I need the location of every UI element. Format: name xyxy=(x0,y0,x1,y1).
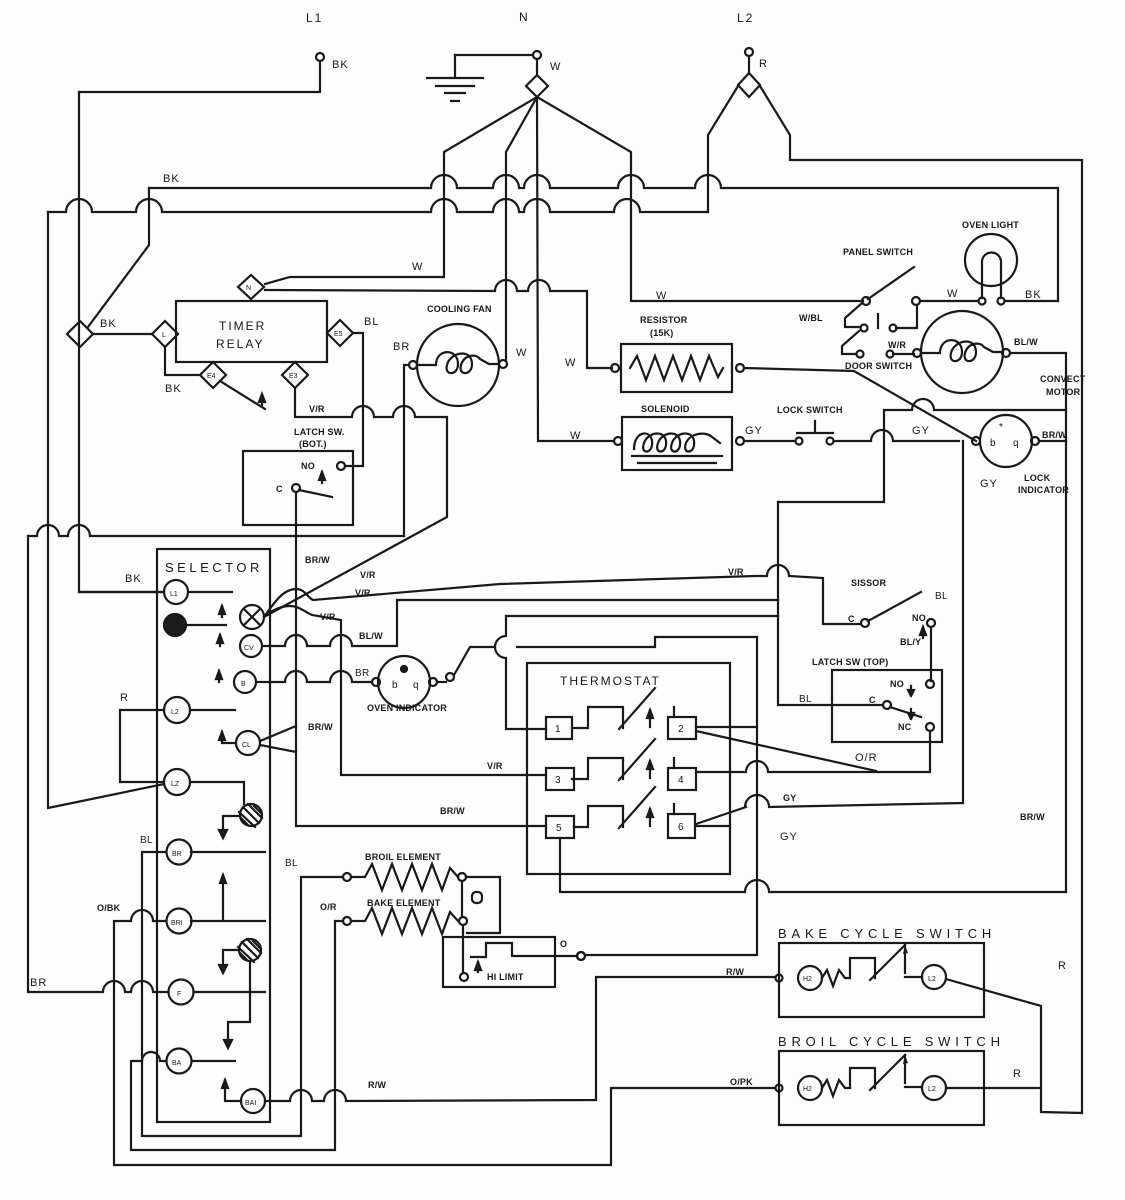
svg-text:L: L xyxy=(162,332,166,339)
svg-text:R: R xyxy=(759,58,768,70)
svg-text:H2: H2 xyxy=(803,976,812,983)
svg-text:W/BL: W/BL xyxy=(799,313,823,323)
svg-text:NC: NC xyxy=(898,722,912,732)
svg-text:BL/Y: BL/Y xyxy=(900,637,921,647)
svg-text:O/BK: O/BK xyxy=(97,903,121,913)
svg-text:BROIL CYCLE SWITCH: BROIL CYCLE SWITCH xyxy=(778,1034,1005,1049)
svg-text:BL: BL xyxy=(799,694,812,705)
svg-text:NO: NO xyxy=(301,461,315,471)
svg-text:2: 2 xyxy=(678,724,684,735)
svg-text:E3: E3 xyxy=(289,373,298,380)
svg-text:GY: GY xyxy=(780,831,798,843)
svg-text:BA: BA xyxy=(172,1060,182,1067)
svg-text:3: 3 xyxy=(555,775,561,786)
svg-text:SOLENOID: SOLENOID xyxy=(641,404,690,414)
svg-text:W: W xyxy=(550,61,561,73)
svg-text:O/PK: O/PK xyxy=(730,1077,753,1087)
svg-text:BAKE CYCLE SWITCH: BAKE CYCLE SWITCH xyxy=(778,926,996,941)
svg-text:R: R xyxy=(1058,960,1067,972)
svg-text:BL: BL xyxy=(364,316,379,328)
svg-text:BL: BL xyxy=(140,835,153,846)
svg-text:R/W: R/W xyxy=(726,967,744,977)
svg-text:*: * xyxy=(999,422,1003,433)
svg-text:L1: L1 xyxy=(170,591,178,598)
svg-text:V/R: V/R xyxy=(487,761,503,771)
svg-text:B: B xyxy=(241,681,246,688)
svg-text:BR: BR xyxy=(30,977,47,989)
svg-text:SISSOR: SISSOR xyxy=(851,578,887,588)
svg-text:6: 6 xyxy=(678,822,684,833)
svg-text:W: W xyxy=(412,261,423,273)
svg-text:W: W xyxy=(565,357,576,369)
svg-text:GY: GY xyxy=(912,425,930,437)
svg-text:BR: BR xyxy=(172,851,182,858)
svg-text:BR: BR xyxy=(393,341,410,353)
svg-text:W: W xyxy=(947,288,958,300)
svg-text:BRI: BRI xyxy=(171,920,183,927)
svg-text:BR/W: BR/W xyxy=(305,555,330,565)
svg-text:R: R xyxy=(120,692,129,704)
svg-text:GY: GY xyxy=(745,425,763,437)
svg-text:CL: CL xyxy=(242,742,251,749)
svg-text:V/R: V/R xyxy=(309,404,325,414)
svg-text:CV: CV xyxy=(244,645,254,652)
svg-text:BR/W: BR/W xyxy=(308,722,333,732)
svg-text:L1: L1 xyxy=(306,11,323,25)
svg-text:1: 1 xyxy=(555,724,561,735)
svg-text:RESISTOR: RESISTOR xyxy=(640,315,688,325)
svg-text:O: O xyxy=(560,939,567,949)
svg-text:(15K): (15K) xyxy=(650,328,674,338)
svg-text:W/R: W/R xyxy=(888,340,906,350)
svg-text:LATCH SW.: LATCH SW. xyxy=(294,427,345,437)
svg-text:INDICATOR: INDICATOR xyxy=(1018,485,1069,495)
svg-text:BL/W: BL/W xyxy=(359,631,383,641)
svg-text:R/W: R/W xyxy=(368,1080,386,1090)
svg-text:LOCK: LOCK xyxy=(1024,473,1051,483)
svg-text:W: W xyxy=(570,430,581,442)
svg-text:N: N xyxy=(246,285,251,292)
svg-text:BROIL ELEMENT: BROIL ELEMENT xyxy=(365,852,441,862)
svg-text:BR/W: BR/W xyxy=(440,806,465,816)
svg-text:L2: L2 xyxy=(737,11,754,25)
svg-text:GY: GY xyxy=(980,478,998,490)
svg-text:W: W xyxy=(516,347,527,359)
svg-text:BK: BK xyxy=(163,173,180,185)
svg-text:BL/W: BL/W xyxy=(1014,337,1038,347)
svg-text:CONVECT: CONVECT xyxy=(1040,374,1086,384)
svg-text:SELECTOR: SELECTOR xyxy=(165,560,263,575)
svg-text:BAI: BAI xyxy=(245,1100,256,1107)
svg-text:C: C xyxy=(848,614,855,624)
svg-text:LOCK SWITCH: LOCK SWITCH xyxy=(777,405,843,415)
svg-text:R: R xyxy=(1013,1068,1022,1080)
svg-text:DOOR SWITCH: DOOR SWITCH xyxy=(845,361,912,371)
svg-text:BK: BK xyxy=(100,318,117,330)
svg-text:BK: BK xyxy=(125,573,142,585)
svg-text:HI LIMIT: HI LIMIT xyxy=(487,972,524,982)
svg-text:C: C xyxy=(869,695,876,705)
svg-text:E5: E5 xyxy=(334,331,343,338)
svg-text:q: q xyxy=(1013,438,1019,449)
svg-text:BK: BK xyxy=(332,59,349,71)
svg-text:L2: L2 xyxy=(928,1086,936,1093)
svg-text:E4: E4 xyxy=(207,373,216,380)
svg-text:5: 5 xyxy=(556,823,562,834)
svg-text:BR/W: BR/W xyxy=(1042,430,1067,440)
svg-text:BAKE ELEMENT: BAKE ELEMENT xyxy=(367,898,441,908)
svg-text:(BOT.): (BOT.) xyxy=(299,439,327,449)
svg-text:BR/W: BR/W xyxy=(1020,812,1045,822)
svg-text:BK: BK xyxy=(1025,289,1042,301)
svg-text:TIMER: TIMER xyxy=(219,319,266,333)
svg-text:NO: NO xyxy=(890,679,904,689)
svg-text:LATCH SW (TOP): LATCH SW (TOP) xyxy=(812,657,888,667)
svg-text:COOLING FAN: COOLING FAN xyxy=(427,304,492,314)
svg-text:F: F xyxy=(177,991,181,998)
svg-text:b: b xyxy=(392,680,398,691)
svg-text:O/R: O/R xyxy=(320,902,337,912)
svg-text:OVEN LIGHT: OVEN LIGHT xyxy=(962,220,1019,230)
svg-text:O/R: O/R xyxy=(855,752,878,764)
svg-text:V/R: V/R xyxy=(360,570,376,580)
svg-text:BL: BL xyxy=(935,591,948,602)
svg-text:4: 4 xyxy=(678,775,684,786)
svg-text:RELAY: RELAY xyxy=(216,337,264,351)
svg-text:BL: BL xyxy=(285,858,298,869)
svg-text:BR: BR xyxy=(355,668,370,679)
svg-text:V/R: V/R xyxy=(355,588,371,598)
svg-text:GY: GY xyxy=(783,793,796,803)
svg-text:q: q xyxy=(413,680,419,691)
svg-text:W: W xyxy=(656,290,667,302)
svg-text:OVEN INDICATOR: OVEN INDICATOR xyxy=(367,703,447,713)
svg-text:C: C xyxy=(276,484,283,494)
svg-text:THERMOSTAT: THERMOSTAT xyxy=(560,674,661,688)
svg-text:V/R: V/R xyxy=(320,612,336,622)
svg-text:L2: L2 xyxy=(928,976,936,983)
svg-text:b: b xyxy=(990,438,996,449)
svg-text:NO: NO xyxy=(912,613,926,623)
svg-text:N: N xyxy=(519,10,530,24)
svg-text:V/R: V/R xyxy=(728,567,744,577)
svg-text:H2: H2 xyxy=(803,1086,812,1093)
svg-text:BK: BK xyxy=(165,383,182,395)
svg-text:L2: L2 xyxy=(171,709,179,716)
svg-text:MOTOR: MOTOR xyxy=(1046,387,1081,397)
svg-text:PANEL SWITCH: PANEL SWITCH xyxy=(843,247,913,257)
svg-text:LZ: LZ xyxy=(171,781,180,788)
